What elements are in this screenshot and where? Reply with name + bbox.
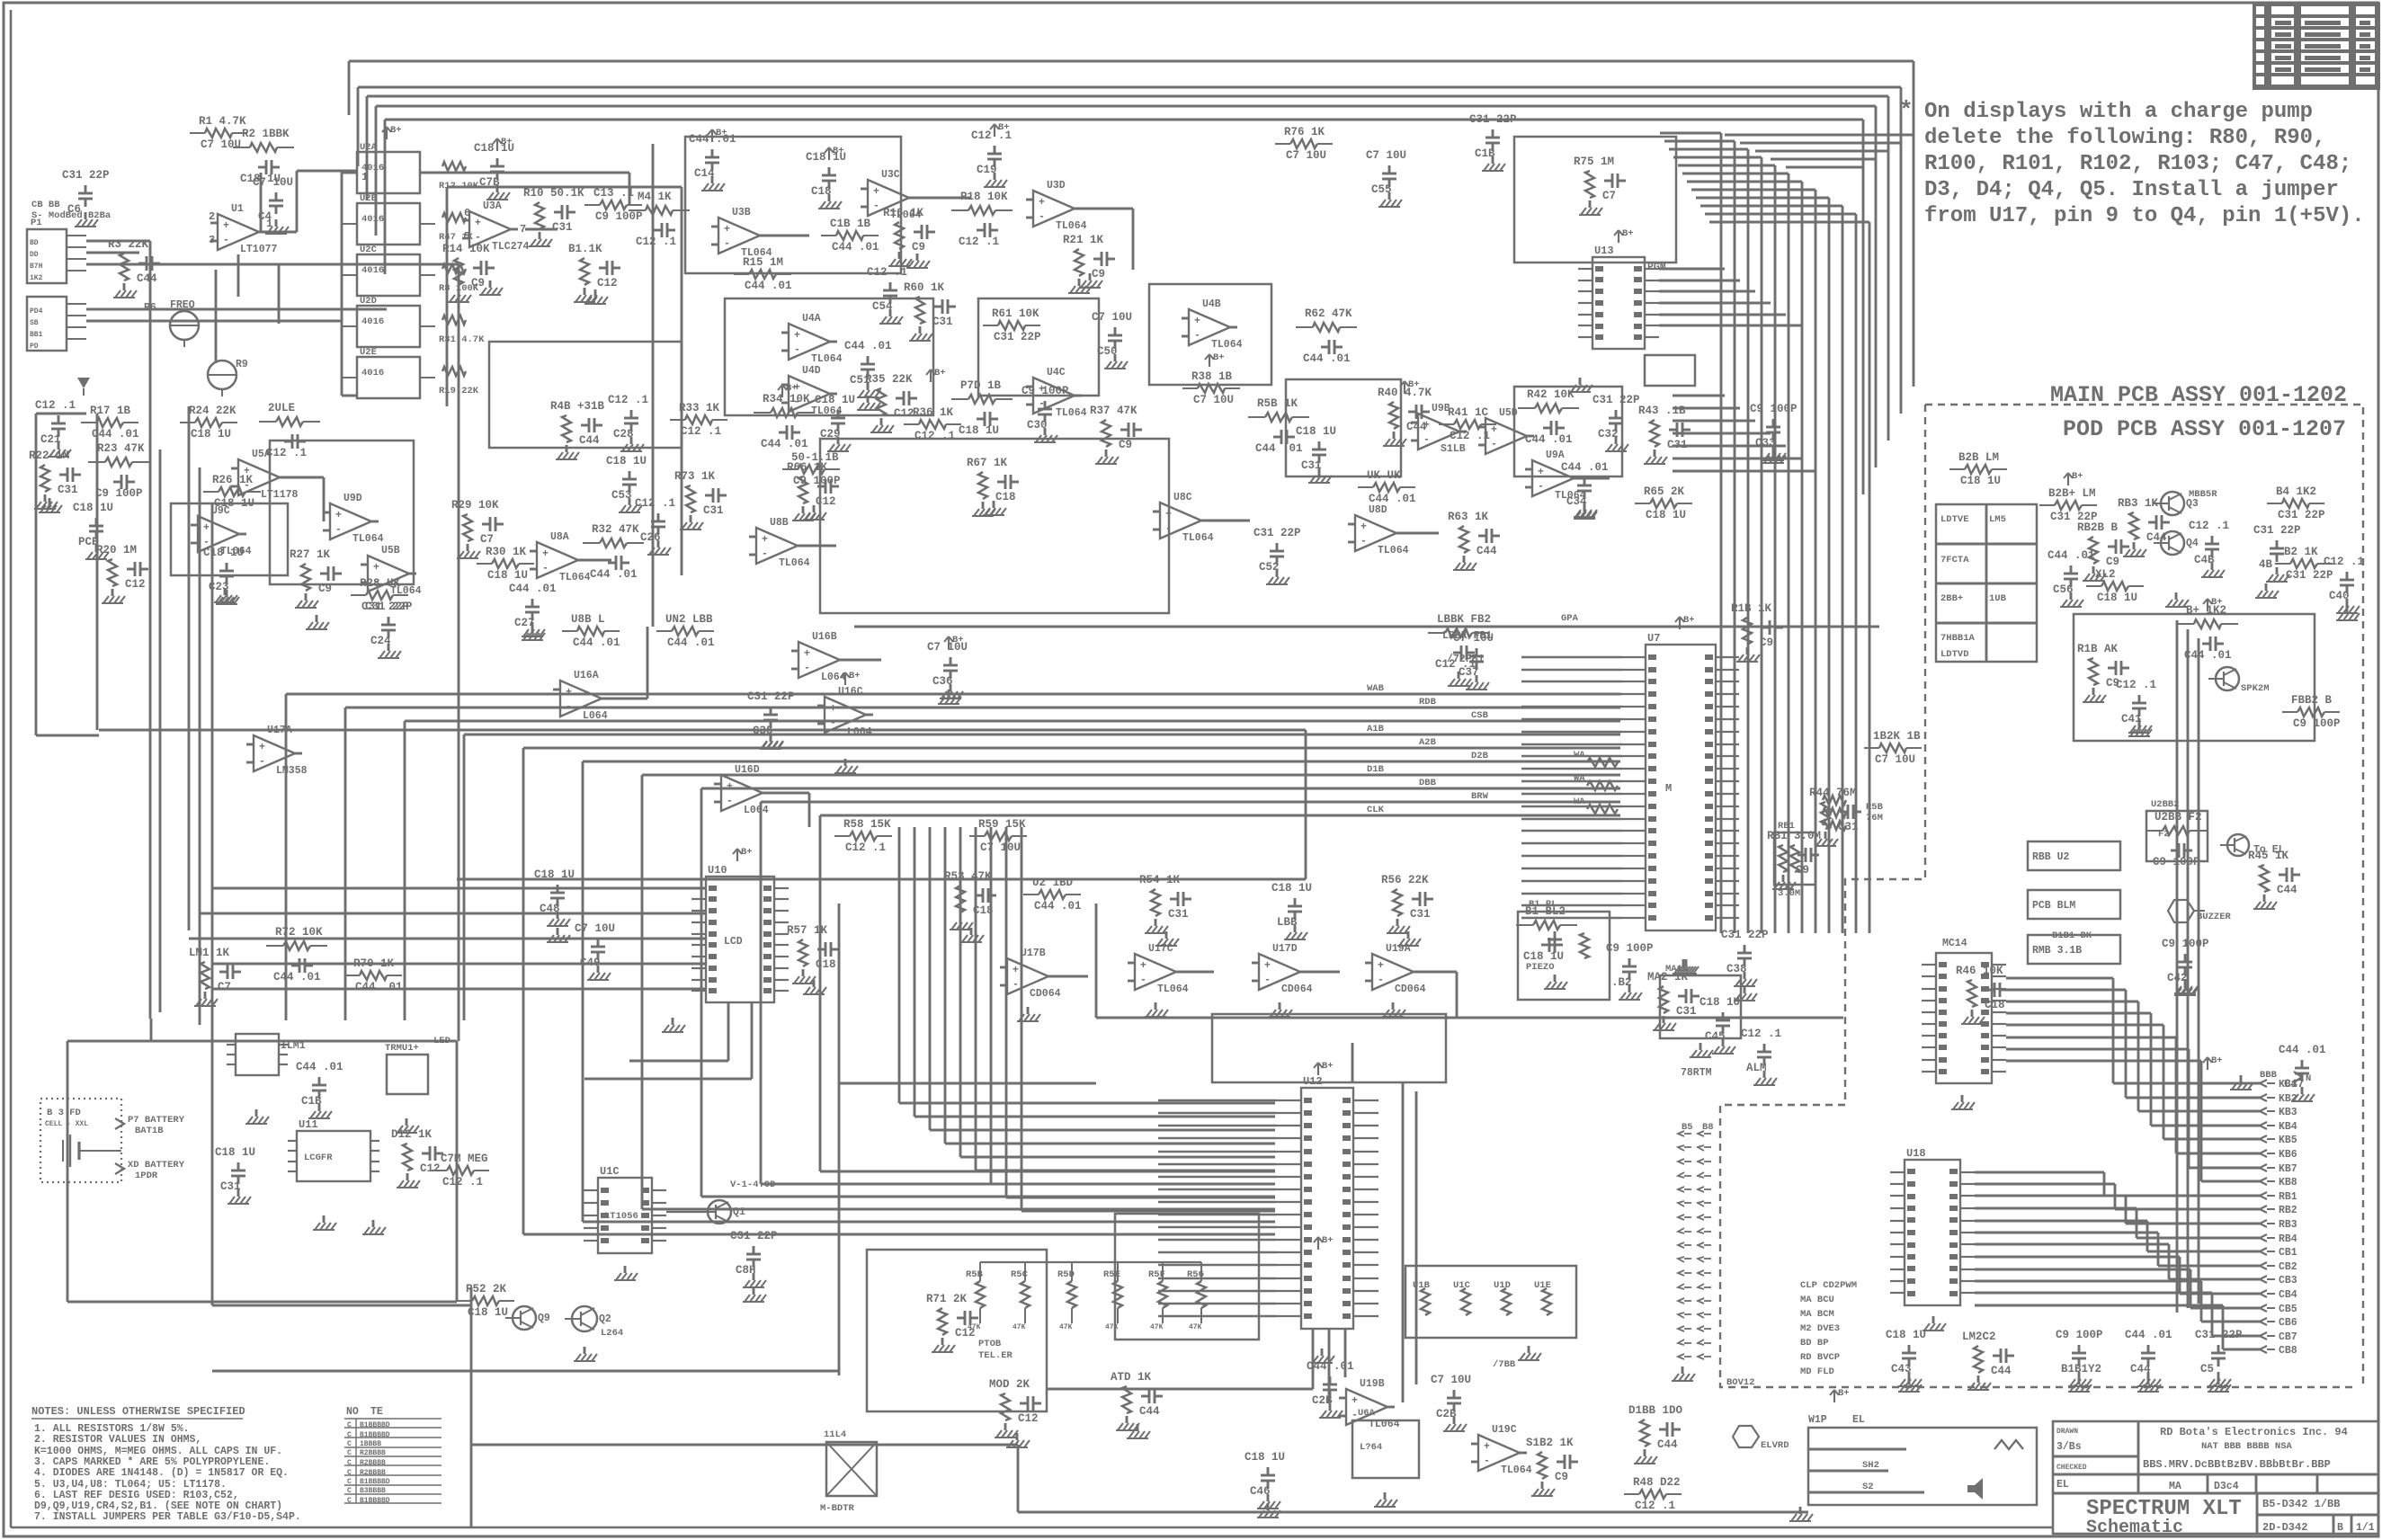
wire opamp row joins [1049, 972, 1457, 1018]
svg-text:C12: C12 [597, 277, 618, 289]
svg-text:NO: NO [346, 1406, 359, 1418]
svg-text:C44: C44 [1476, 545, 1497, 557]
svg-text:C28: C28 [613, 428, 634, 441]
svg-text:RD Bota's Electronics Inc. 94: RD Bota's Electronics Inc. 94 [2160, 1426, 2348, 1438]
svg-text:PD4: PD4 [30, 307, 43, 316]
svg-text:C33: C33 [1755, 437, 1776, 450]
svg-text:TL064: TL064 [352, 533, 384, 545]
svg-text:LBBK FB1: LBBK FB1 [1442, 630, 1492, 642]
svg-text:+: + [1264, 960, 1271, 972]
cluster MOD [989, 1378, 1041, 1438]
svg-text:C12 .1: C12 .1 [608, 394, 648, 406]
svg-text:3/Bs: 3/Bs [2056, 1441, 2082, 1453]
svg-text:B+: B+ [1322, 1061, 1334, 1072]
svg-text:4016: 4016 [361, 214, 384, 225]
cluster R61 [983, 307, 1041, 343]
svg-text:C18 1U: C18 1U [468, 1306, 508, 1319]
svg-text:C18 1U: C18 1U [1960, 475, 2001, 487]
svg-text:U10: U10 [708, 864, 727, 877]
wire feedback box 2 [725, 298, 933, 415]
svg-text:M4 1K: M4 1K [638, 191, 672, 203]
svg-text:CB5: CB5 [2279, 1304, 2297, 1315]
cluster C21 [35, 399, 76, 457]
svg-text:C12 .1: C12 .1 [2116, 679, 2156, 691]
svg-text:1PDR: 1PDR [135, 1171, 158, 1181]
svg-text:TE: TE [370, 1406, 383, 1418]
cluster C19 [971, 129, 1012, 187]
op-amp U16D [714, 764, 770, 816]
svg-text:B+: B+ [390, 125, 402, 136]
svg-text:MC14: MC14 [1942, 938, 1967, 949]
svg-text:UN2 LBB: UN2 LBB [665, 613, 713, 626]
svg-text:C24: C24 [370, 635, 391, 647]
cluster R45 [2248, 850, 2300, 909]
cluster R24 [180, 405, 237, 441]
svg-text:S2: S2 [1862, 1482, 1874, 1492]
ic U7 [1622, 615, 1739, 974]
svg-text:BRW: BRW [1471, 791, 1489, 802]
cluster B1.1K [568, 243, 620, 302]
op-amp U8C [1153, 492, 1214, 544]
svg-text:C44 .01: C44 .01 [1561, 461, 1609, 474]
svg-text:C12: C12 [1018, 1412, 1039, 1425]
cluster R10 [523, 187, 584, 246]
resistor network RN2 [1823, 796, 1884, 830]
svg-text:C44 .01: C44 .01 [1034, 900, 1082, 912]
svg-text:C52: C52 [1259, 561, 1280, 574]
svg-text:U2A: U2A [360, 142, 378, 153]
cluster pod0 [2118, 497, 2170, 556]
svg-text:C31: C31 [932, 316, 953, 328]
wire keyboard fan A [2006, 978, 2260, 1181]
resistor group U1B-U1E [1405, 1266, 1576, 1370]
cluster pod1 [2047, 549, 2095, 607]
supply arrows [382, 122, 2223, 1402]
svg-text:C7 10U: C7 10U [1431, 1374, 1471, 1386]
svg-text:B1B1 BK: B1B1 BK [2052, 930, 2092, 941]
svg-text:11L4: 11L4 [824, 1429, 846, 1440]
svg-text:-: - [794, 344, 800, 356]
resistor network RN1 [1574, 750, 1618, 814]
svg-text:+: + [1140, 960, 1146, 972]
svg-text:C12 .1: C12 .1 [1741, 1028, 1781, 1040]
cluster C29 [815, 394, 855, 451]
svg-text:R32 47K: R32 47K [592, 523, 639, 536]
wire left vertical rails [150, 406, 212, 1305]
svg-text:U5B: U5B [381, 545, 400, 556]
cluster R5B [1248, 397, 1309, 455]
op-amp U9C [191, 505, 252, 557]
svg-text:+: + [203, 522, 210, 534]
wire right rails [2177, 620, 2199, 1313]
cluster C7M [432, 1153, 489, 1188]
svg-text:CSB: CSB [1471, 710, 1489, 721]
svg-text:U8A: U8A [550, 531, 569, 543]
svg-text:V-1-4.CD: V-1-4.CD [730, 1179, 775, 1190]
cluster XL2 [2086, 568, 2144, 604]
op-amp U17B [1000, 948, 1061, 1000]
op-amp U17C [1128, 943, 1189, 995]
svg-text:C9: C9 [471, 277, 485, 289]
cluster x8 [867, 266, 907, 324]
svg-text:L064: L064 [583, 710, 608, 722]
svg-text:C13 .1: C13 .1 [593, 187, 634, 200]
ic D5 LED block [385, 1036, 451, 1133]
cluster R57 [787, 924, 839, 984]
svg-text:M: M [1665, 782, 1672, 795]
svg-text:LED: LED [433, 1036, 451, 1046]
svg-text:R4B +31B: R4B +31B [550, 400, 605, 413]
cluster R59 [969, 818, 1027, 854]
svg-text:C9 100P: C9 100P [2293, 717, 2341, 730]
wire top bus right drops [1863, 61, 1914, 494]
transistor Q3 [2154, 489, 2217, 515]
svg-text:C7 10U: C7 10U [253, 176, 293, 189]
svg-text:C56: C56 [2053, 583, 2074, 596]
svg-text:CB BB: CB BB [31, 200, 60, 210]
svg-text:A2B: A2B [1419, 737, 1437, 748]
svg-text:ALM: ALM [1746, 1062, 1767, 1074]
cluster R20 [96, 544, 148, 603]
svg-text:-: - [566, 701, 572, 713]
net labels U7 fan [1367, 683, 1489, 815]
svg-text:+: + [762, 534, 768, 546]
svg-text:R72 10K: R72 10K [275, 926, 323, 939]
wire top row joins [261, 173, 1133, 270]
cluster 4B [2253, 524, 2301, 582]
svg-text:+: + [1361, 521, 1367, 533]
pin number U2A [361, 171, 368, 183]
svg-text:U2E: U2E [360, 347, 377, 358]
svg-text:C12 .1: C12 .1 [867, 266, 907, 279]
note text charge pump [1899, 97, 2365, 228]
svg-text:C1B: C1B [1475, 147, 1495, 160]
cluster C34 [1561, 461, 1609, 519]
cluster R17 [81, 405, 139, 441]
svg-text:R61 10K: R61 10K [992, 307, 1039, 320]
analog switch U2B [342, 193, 474, 245]
svg-text:C21: C21 [40, 433, 61, 446]
cluster R42 [1518, 388, 1579, 446]
wire top bus [349, 61, 1914, 120]
op-amp U9D [323, 493, 384, 545]
cluster C37 [1453, 632, 1494, 690]
svg-text:47K: 47K [1013, 1323, 1026, 1331]
svg-text:ELVRD: ELVRD [1761, 1440, 1789, 1451]
svg-text:B+: B+ [952, 635, 964, 645]
svg-text:C44 .01: C44 .01 [1303, 352, 1351, 365]
svg-text:+: + [724, 224, 730, 236]
svg-text:C44 .01: C44 .01 [1369, 493, 1416, 505]
svg-text:C31: C31 [552, 221, 573, 234]
svg-text:TL064: TL064 [1056, 407, 1087, 419]
svg-text:4. DIODES ARE 1N4148. (D) = 1N: 4. DIODES ARE 1N4148. (D) = 1N5817 OR EQ… [34, 1467, 289, 1479]
analog switch U2A [342, 142, 479, 193]
cluster C23 [203, 547, 244, 604]
op-amp U19C [1471, 1424, 1532, 1476]
cluster B2B+ [2039, 487, 2098, 523]
svg-text:2D-D342: 2D-D342 [2262, 1521, 2307, 1534]
svg-text:R43 .1B: R43 .1B [1638, 405, 1686, 417]
svg-text:SH2: SH2 [1862, 1460, 1879, 1471]
cluster C31 [1296, 425, 1336, 483]
svg-text:D1B: D1B [1367, 764, 1385, 775]
cluster R18 [951, 191, 1013, 248]
svg-text:U1D: U1D [1494, 1280, 1511, 1291]
ic U6A [1352, 1408, 1419, 1507]
ground symbols [39, 254, 2360, 1518]
svg-text:.B2: .B2 [1611, 976, 1632, 989]
svg-text:TL064: TL064 [559, 572, 591, 583]
cluster ALM [1741, 1028, 1781, 1085]
label PTOB [978, 1339, 1013, 1361]
svg-text:C44: C44 [1406, 421, 1427, 433]
svg-text:R52 2K: R52 2K [466, 1283, 507, 1295]
wire U12 bottom stubs [1047, 1043, 1416, 1402]
svg-text:C31 22P: C31 22P [2286, 569, 2333, 582]
wire U1 out [238, 171, 357, 297]
svg-text:3: 3 [209, 234, 215, 246]
svg-text:47K: 47K [1059, 1323, 1073, 1331]
cluster R54 [1139, 874, 1191, 933]
wire feedback box 12 [1212, 1014, 1446, 1082]
wire right vertical bundle [1660, 133, 1869, 933]
op-amp U16A [553, 670, 609, 722]
op-amp U19A [1365, 943, 1426, 995]
svg-text:+: + [830, 703, 836, 715]
svg-text:R46 10K: R46 10K [1956, 965, 2003, 977]
svg-text:EL: EL [2056, 1479, 2069, 1491]
transistor Q8 [1733, 1426, 1789, 1451]
svg-text:LDTVD: LDTVD [1940, 649, 1969, 660]
svg-text:CB3: CB3 [2279, 1275, 2297, 1286]
svg-text:C7: C7 [218, 981, 231, 993]
svg-text:U17A: U17A [267, 725, 292, 736]
cluster 2ULE [259, 402, 320, 459]
cluster C8H [730, 1230, 778, 1287]
svg-text:C31 22P: C31 22P [1592, 394, 1640, 406]
svg-text:LM1 1K: LM1 1K [189, 947, 230, 959]
cluster FBB2 [2282, 694, 2341, 730]
cluster C46 [1245, 1451, 1285, 1509]
wire center verticals [447, 144, 682, 627]
EL panel connector W1P [1808, 1414, 2037, 1505]
cluster RB2B [2077, 521, 2129, 581]
svg-text:R23 47K: R23 47K [97, 442, 145, 455]
svg-text:C31: C31 [58, 484, 78, 496]
svg-text:C18 1U: C18 1U [1523, 950, 1564, 963]
cluster C52 [1253, 527, 1301, 584]
notes text block [31, 1405, 301, 1523]
svg-text:U17B: U17B [1021, 948, 1046, 959]
svg-text:U7: U7 [1647, 632, 1660, 645]
svg-text:DBB: DBB [1419, 778, 1437, 788]
svg-text:C44 .01: C44 .01 [273, 971, 321, 984]
svg-text:C18 1U: C18 1U [534, 868, 575, 881]
svg-text:C31: C31 [1410, 908, 1431, 921]
cluster P7D [951, 379, 1013, 437]
connector pin columns [1678, 1122, 1714, 1359]
svg-text:C7M MEG: C7M MEG [441, 1153, 488, 1165]
svg-text:C7 10U: C7 10U [980, 841, 1021, 854]
svg-text:Q2: Q2 [599, 1313, 611, 1325]
svg-text:XL2: XL2 [2095, 568, 2116, 581]
svg-text:C37: C37 [1459, 666, 1479, 679]
svg-text:MD FLD: MD FLD [1800, 1366, 1834, 1377]
cluster C51 [844, 340, 892, 397]
wire battery loop [67, 1041, 457, 1302]
cluster 1B2K [1864, 730, 1922, 766]
cluster x9 [1275, 126, 1333, 162]
svg-text:C31 22P: C31 22P [1469, 113, 1517, 126]
svg-text:C12 .1: C12 .1 [266, 447, 307, 459]
svg-text:TL064: TL064 [1211, 339, 1243, 351]
svg-text:C12 .1: C12 .1 [914, 430, 955, 442]
svg-text:from U17, pin 9 to Q4, pin 1(+: from U17, pin 9 to Q4, pin 1(+5V). [1924, 204, 2365, 228]
svg-text:1UB: 1UB [1989, 593, 2007, 604]
svg-text:-: - [762, 548, 768, 560]
svg-text:C18: C18 [816, 958, 836, 971]
cluster C47 [2279, 1044, 2326, 1101]
svg-text:1K2: 1K2 [30, 274, 43, 282]
svg-text:C31 22P: C31 22P [1253, 527, 1301, 539]
cluster B+ [2177, 604, 2238, 662]
svg-text:U2 1BD: U2 1BD [1032, 877, 1074, 889]
svg-text:+: + [727, 781, 733, 793]
wire feedback box 4 [1149, 284, 1271, 385]
svg-text:CB4: CB4 [2279, 1289, 2297, 1301]
svg-text:LBBK FB2: LBBK FB2 [1437, 613, 1491, 626]
op-amp U16B [791, 631, 847, 683]
svg-text:6: 6 [464, 207, 470, 219]
svg-text:L064: L064 [744, 805, 769, 816]
POD PCB dashed boundary [1720, 405, 2363, 1387]
transistor Q9 [505, 1306, 550, 1330]
op-amp U4C [1026, 367, 1087, 419]
svg-text:B+: B+ [849, 671, 861, 681]
svg-text:C32: C32 [1598, 428, 1619, 441]
svg-text:C12: C12 [816, 495, 836, 508]
svg-text:C44 .01: C44 .01 [590, 568, 638, 581]
svg-text:7. INSTALL JUMPERS PER TABLE G: 7. INSTALL JUMPERS PER TABLE G3/F10-D5,S… [34, 1511, 301, 1523]
svg-text:ATD 1K: ATD 1K [1111, 1371, 1152, 1384]
cluster C7B [474, 142, 514, 200]
svg-text:MAIN PCB ASSY 001-1202: MAIN PCB ASSY 001-1202 [2050, 382, 2347, 408]
svg-text:RBB U2: RBB U2 [2032, 851, 2070, 863]
svg-text:C44: C44 [1139, 1405, 1160, 1418]
svg-text:C7 10U: C7 10U [1286, 149, 1326, 162]
svg-text:C9 100P: C9 100P [1750, 403, 1798, 415]
cluster D1BB [1628, 1404, 1683, 1464]
wire feedback box 13 [867, 1250, 1047, 1411]
svg-text:KB8: KB8 [2279, 1177, 2297, 1188]
cluster R35 [865, 373, 917, 432]
svg-text:RB2: RB2 [2279, 1205, 2297, 1216]
svg-text:-: - [804, 663, 810, 674]
cluster R43 [1638, 405, 1691, 464]
wire feedback box 11 [2074, 614, 2315, 741]
svg-text:7HBB1A: 7HBB1A [1940, 633, 1976, 644]
svg-text:-: - [1378, 975, 1384, 986]
svg-text:C18 1U: C18 1U [815, 394, 855, 406]
cluster UN2 [656, 613, 715, 649]
svg-text:XD BATTERY: XD BATTERY [128, 1160, 185, 1171]
svg-text:C44 .01: C44 .01 [2125, 1329, 2172, 1341]
cluster R26 [203, 474, 261, 510]
svg-text:U3C: U3C [881, 169, 900, 181]
cluster LM2C2 [1962, 1331, 2014, 1390]
svg-text:C18: C18 [811, 185, 832, 198]
svg-text:R66 1K: R66 1K [787, 461, 828, 474]
svg-text:C18 1U: C18 1U [203, 547, 244, 559]
wire fan into U7 left pins [286, 694, 1620, 1234]
svg-text:C44 .01: C44 .01 [573, 636, 620, 649]
wire feedback box 3 [820, 439, 1169, 613]
svg-text:NOTES: UNLESS OTHERWISE SPECIF: NOTES: UNLESS OTHERWISE SPECIFIED [31, 1405, 245, 1418]
svg-text:WAB: WAB [1367, 683, 1385, 694]
cluster RB1 [1767, 830, 1821, 889]
svg-text:BD: BD [30, 239, 39, 247]
cluster C43 [1886, 1329, 1926, 1386]
svg-text:TL064: TL064 [1182, 532, 1214, 544]
svg-text:R30 1K: R30 1K [486, 546, 527, 558]
op-amp U9A [1525, 450, 1586, 502]
cluster C14 [689, 133, 736, 191]
svg-text:C7 10U: C7 10U [575, 922, 615, 935]
cluster pod2 [2267, 485, 2325, 521]
svg-text:B+: B+ [741, 847, 753, 858]
wire mid rails 2 [457, 627, 1879, 879]
svg-text:C44 .01: C44 .01 [832, 241, 879, 254]
wire U7 left comb [1521, 657, 1622, 918]
svg-text:MA: MA [2169, 1481, 2181, 1492]
svg-text:U16D: U16D [735, 764, 760, 776]
svg-text:RB1: RB1 [1778, 821, 1795, 832]
svg-text:-: - [1484, 1455, 1490, 1467]
svg-text:U8B L: U8B L [571, 613, 605, 626]
svg-text:C12: C12 [894, 407, 914, 420]
svg-text:KB7: KB7 [2279, 1163, 2297, 1175]
svg-text:DRAWN: DRAWN [2056, 1428, 2078, 1436]
svg-text:+: + [223, 220, 229, 232]
svg-text:C7 10U: C7 10U [1875, 753, 1915, 766]
svg-text:C9: C9 [1119, 439, 1132, 451]
op-amp U5A [231, 449, 299, 501]
svg-text:C53: C53 [611, 489, 632, 502]
svg-text:L264: L264 [601, 1328, 623, 1339]
cluster C4B [2189, 520, 2229, 577]
svg-text:C18 1U: C18 1U [1700, 996, 1740, 1009]
transistor Q4 [2154, 531, 2199, 555]
cluster R22 [29, 450, 81, 509]
cluster R48 [1624, 1476, 1682, 1512]
cluster M4 [629, 191, 690, 248]
cluster C35 [747, 690, 795, 748]
wire feedback box 15 [1514, 137, 1676, 263]
svg-text:R56 22K: R56 22K [1381, 874, 1429, 886]
cluster R14 [442, 243, 495, 302]
svg-text:U11: U11 [299, 1118, 318, 1131]
svg-text:U2C: U2C [360, 245, 378, 255]
svg-text:KB3: KB3 [2279, 1107, 2297, 1118]
cluster C27 [509, 583, 557, 640]
svg-text:R3 22K: R3 22K [108, 238, 149, 251]
svg-text:C9 100P: C9 100P [2162, 938, 2209, 950]
svg-text:B+: B+ [2211, 597, 2223, 608]
pod signal labels [1800, 1280, 1857, 1377]
svg-text:-: - [223, 235, 229, 246]
cluster C45 [1700, 996, 1740, 1054]
